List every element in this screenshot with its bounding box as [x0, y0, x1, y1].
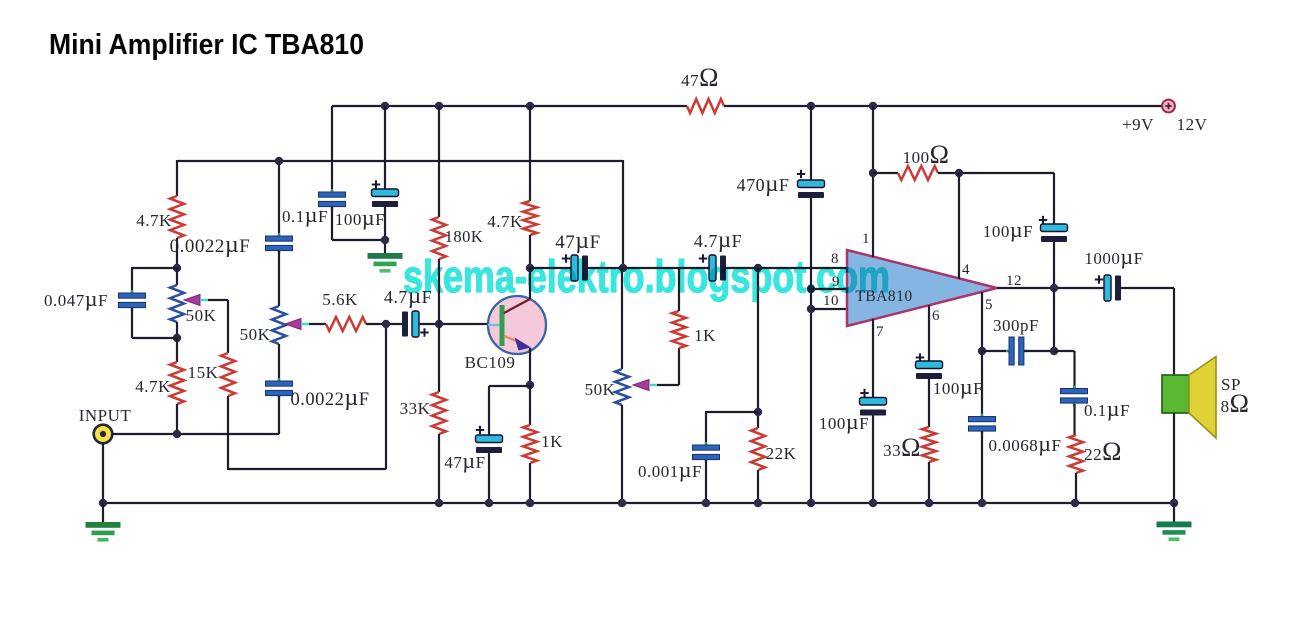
label 0.0068uF [989, 431, 1062, 456]
resistor R 1K emitter [523, 425, 537, 463]
node power rail / 4.7K collector [526, 102, 534, 110]
wire feedback horizontal y161 [177, 160, 623, 162]
plus 4.7uF coupling [420, 328, 428, 336]
wire 300pF left stub [982, 350, 1009, 352]
wire 180K bottom lead [438, 259, 440, 324]
node 100R left [869, 169, 877, 177]
plus 47uF feedback [562, 254, 570, 262]
label pin 7 [876, 324, 884, 340]
wire 0.1uF bottom to ground link [332, 206, 385, 240]
capacitor 47uF feedback [571, 255, 588, 281]
node gnd 0.0068uF [978, 499, 986, 507]
capacitor 100uF pin7 [860, 398, 887, 416]
label 1K-2 [694, 326, 716, 345]
label pin 8 [831, 251, 839, 267]
label 1K emitter [541, 432, 563, 451]
resistor R 33R [922, 427, 936, 462]
label 22R [1084, 437, 1122, 466]
plus 100uF decoupling [372, 180, 380, 188]
wire 4.7K-2 top lead [529, 106, 531, 201]
node base / 180K-33K divider [435, 320, 443, 328]
input jack connector [94, 425, 113, 444]
capacitor 470uF [798, 180, 825, 198]
wire speaker to ground rail [1173, 413, 1175, 503]
svg-text:+9V: +9V [1122, 115, 1154, 134]
label 22K [766, 444, 797, 463]
wire 0.001uF bottom lead [705, 460, 707, 503]
svg-text:4.7K: 4.7K [487, 212, 523, 231]
wire 4.7K-2 bottom lead [529, 235, 531, 268]
label 47uF feedback [555, 228, 600, 254]
wire pin 6 lead [928, 305, 930, 361]
svg-text:4: 4 [962, 262, 970, 278]
label 33K [400, 399, 431, 418]
label 0.0022uF lower [291, 385, 370, 411]
wire 5.6K to node [366, 323, 402, 325]
wire pin 9 [811, 288, 847, 290]
capacitor 0.1uF decoupling [319, 189, 346, 210]
label 12V [1177, 115, 1208, 134]
watermark [403, 251, 890, 302]
wire 100R left stub [873, 172, 898, 174]
label 50K-1 [186, 306, 217, 325]
node power rail / 180K [435, 102, 443, 110]
svg-text:4.7K: 4.7K [135, 377, 171, 396]
ground input [86, 503, 121, 542]
wire feedback vertical drop x623 [622, 160, 624, 268]
node power rail / 100R [869, 102, 877, 110]
wire input to x279 [112, 433, 279, 435]
node feedback drop [619, 264, 627, 272]
label 8R [1221, 389, 1250, 418]
+9V supply terminal [1162, 100, 1175, 113]
wire 47uF to x623 node [588, 267, 623, 269]
potentiometer 50K-3 body [615, 369, 629, 405]
wire 4.7uF-2 to op-amp pin 8 [726, 267, 847, 269]
wire pin 10 [811, 308, 847, 310]
wire pin 1 [872, 173, 874, 257]
wire collector up [529, 268, 531, 299]
label 50K-2 [240, 325, 271, 344]
label pin 12 [1006, 273, 1022, 289]
capacitor 0.0022uF upper [266, 233, 293, 254]
wire emitter to bypass cap [489, 386, 530, 435]
BC109 base bar [500, 305, 505, 346]
node gnd speaker [1170, 499, 1178, 507]
wire 300pF right to output drop [1024, 288, 1054, 351]
wire 22R bottom lead [1075, 473, 1077, 503]
wire 4.7K R1 top lead [176, 160, 178, 196]
node feedback / 0.0022uF [275, 157, 283, 165]
title [49, 29, 364, 61]
BC109 collector stroke [504, 299, 530, 313]
transistor Q1 BC109 body [488, 296, 546, 354]
potentiometer 50K-2 body [272, 306, 286, 344]
capacitor 0.001uF [693, 442, 720, 463]
resistor R 33K [432, 392, 446, 434]
label 100R [903, 140, 950, 169]
svg-text:50K: 50K [585, 380, 616, 399]
resistor R 5.6K [326, 317, 366, 331]
label 47R [681, 63, 719, 92]
wire 100uF pin7 bottom [872, 416, 874, 504]
plus 47uF bypass [476, 426, 484, 434]
wire rail start drop to 0.1uF [331, 106, 333, 192]
label 47uF bypass [444, 448, 485, 473]
wire between pot2 and cap2 [278, 344, 280, 381]
svg-text:1K: 1K [541, 432, 563, 451]
svg-text:1K: 1K [694, 326, 716, 345]
svg-text:300pF: 300pF [993, 316, 1039, 335]
svg-text:12: 12 [1006, 273, 1022, 289]
plus 4.7uF pin8 [699, 254, 707, 262]
wire cap to transistor base [419, 323, 488, 325]
potentiometer 50K-1 body [170, 285, 184, 322]
wire cap2 bottom lead [278, 396, 280, 434]
resistor R 15K [221, 353, 235, 396]
svg-text:33K: 33K [400, 399, 431, 418]
label 300pF [993, 316, 1039, 335]
plus 100uF pin6 [916, 353, 924, 361]
label 15K [188, 363, 219, 382]
label 100uF pin7 [819, 409, 869, 434]
node gnd 1K emitter [526, 499, 534, 507]
wire input jack to ground rail [102, 443, 104, 503]
label pin 1 [862, 231, 870, 247]
node pin5 / 300pF [978, 347, 986, 355]
svg-text:6: 6 [932, 308, 940, 324]
wire 100R right to 100uF [938, 173, 1054, 224]
wire bottom ground rail [103, 502, 1174, 504]
label 0.047uF [44, 286, 108, 311]
wire top power rail left of 47R [332, 105, 687, 107]
wire 22K bottom lead [757, 470, 759, 503]
capacitor 4.7uF coupling (dark left, cyan right) [402, 311, 419, 337]
svg-text:12V: 12V [1177, 115, 1208, 134]
wire to 0.1uF branch [1054, 351, 1075, 388]
wire pot3 bottom lead [621, 405, 623, 503]
label pin 4 [962, 262, 970, 278]
resistor R 100R [898, 166, 938, 180]
pot 50K-1 wiper arrow [184, 295, 208, 306]
wire pin 7 lead [872, 319, 874, 397]
node gnd input [99, 499, 107, 507]
wire wiper1 to 15K [208, 300, 228, 353]
node gnd 22R [1071, 499, 1079, 507]
ground decoupling [368, 253, 403, 273]
node gnd 33K [435, 499, 443, 507]
node x177 y338 [173, 334, 181, 342]
label 4.7K collector [487, 212, 523, 231]
capacitor 4.7uF to pin8 [709, 255, 726, 281]
label pin 5 [985, 297, 993, 313]
svg-text:470µF: 470µF [737, 171, 790, 196]
node pin 4 top [955, 169, 963, 177]
wire pin 5 lead [981, 292, 983, 351]
op-amp U1 TBA810 [847, 250, 997, 326]
node gnd 22K [754, 499, 762, 507]
resistor R 180K [432, 217, 446, 259]
wire wiper2 stub [309, 323, 326, 325]
wire emitter down [529, 348, 531, 385]
capacitor 47uF emitter bypass [476, 435, 503, 453]
node collector feedback [526, 264, 534, 272]
label 4.7uF coupling [384, 283, 432, 308]
wire 0.047uF top [132, 267, 177, 293]
wire 33K top lead [438, 324, 440, 392]
svg-text:50K: 50K [186, 306, 217, 325]
BC109 emitter arrow [515, 338, 532, 351]
capacitor 300pF [1006, 337, 1027, 365]
wire 33R bottom lead [928, 462, 930, 503]
label BC109 [465, 353, 516, 372]
node input / 4.7K [173, 430, 181, 438]
capacitor 100uF boost [1041, 224, 1068, 242]
label +9V [1122, 115, 1154, 134]
label 100uF boost [983, 217, 1033, 242]
svg-text:4.7K: 4.7K [136, 211, 172, 230]
svg-text:7: 7 [876, 324, 884, 340]
wire 100uF bottom stub [384, 207, 386, 253]
wire 33K bottom lead [438, 434, 440, 503]
capacitor 0.047uF [119, 290, 146, 311]
wire 1K-1 top lead [529, 385, 531, 425]
wire bypass cap to ground rail [488, 453, 490, 503]
node gnd pin7 [869, 499, 877, 507]
node gnd 0.001uF [702, 499, 710, 507]
resistor R 4.7K lower-left [170, 362, 184, 404]
label 470uF [737, 171, 790, 196]
wire x623 node to 4.7uF-2 [623, 267, 710, 269]
resistor R 22K [751, 428, 765, 470]
node 22K / 0.001uF [754, 408, 762, 416]
label 100uF decoupling [335, 205, 385, 230]
wire collector node to 47uF [530, 267, 572, 269]
svg-text:50K: 50K [240, 325, 271, 344]
wire 22K column upper [757, 268, 759, 428]
wire 0.0068uF bottom lead [981, 431, 983, 503]
label 4.7K lower-left [135, 377, 171, 396]
wire 0.1uF to 22R [1073, 404, 1075, 435]
svg-text:180K: 180K [445, 227, 484, 246]
node decoupling ground [381, 236, 389, 244]
wire 100uF boost bottom [1053, 242, 1055, 288]
label 4.7K upper-left [136, 211, 172, 230]
node gnd 33R [925, 499, 933, 507]
svg-text:0.0022µF: 0.0022µF [170, 232, 251, 258]
speaker SP horn [1189, 357, 1216, 439]
speaker SP magnet [1162, 375, 1189, 413]
capacitor 100uF pin6 [916, 361, 943, 379]
node output / boost [1050, 284, 1058, 292]
resistor R 22R [1069, 435, 1083, 473]
svg-text:Mini Amplifier IC TBA810: Mini Amplifier IC TBA810 [49, 29, 364, 61]
label 180K [445, 227, 484, 246]
resistor R 4.7K upper-left [170, 196, 184, 238]
wire 0.047uF bottom [132, 308, 177, 338]
svg-text:5.6K: 5.6K [322, 290, 358, 309]
label INPUT [79, 406, 132, 425]
BC109 emitter stroke [504, 336, 522, 343]
wire top power rail right of 47R [724, 105, 1162, 107]
capacitor 0.0068uF [969, 414, 996, 435]
node power rail / 470uF [807, 102, 815, 110]
label 4.7uF pin8 [694, 227, 742, 252]
capacitor 100uF decoupling [372, 189, 399, 207]
label 33R [883, 433, 921, 462]
wire pin5 node to 0.0068uF [981, 351, 983, 417]
label 0.0022uF upper [170, 232, 251, 258]
wire R1 bottom lead [176, 238, 178, 268]
label 1000uF [1084, 244, 1143, 269]
node x177 y268 [173, 264, 181, 272]
pot 50K-3 wiper arrow [633, 380, 657, 391]
wire pin 4 [958, 173, 960, 279]
plus 470uF [797, 170, 805, 178]
node gnd pin10 line [807, 499, 815, 507]
svg-text:skema-elektro.blogspot.com: skema-elektro.blogspot.com [403, 251, 890, 302]
label SP [1221, 375, 1241, 394]
capacitor 0.0022uF lower [266, 378, 293, 399]
capacitor 1000uF output [1104, 275, 1121, 301]
label pin 9 [832, 274, 840, 290]
wire 1000uF to speaker [1121, 288, 1174, 375]
label 5.6K [322, 290, 358, 309]
svg-text:15K: 15K [188, 363, 219, 382]
svg-text:4.7µF: 4.7µF [694, 227, 742, 252]
node pin10 [807, 305, 815, 313]
wire output pin12 [997, 287, 1105, 289]
resistor R 4.7K collector [523, 201, 537, 235]
wire pot 50K-1 bottom lead [176, 322, 178, 338]
node emitter [526, 381, 534, 389]
label 50K-3 [585, 380, 616, 399]
wire 15K bottom to riser [227, 324, 386, 469]
svg-text:INPUT: INPUT [79, 406, 132, 425]
wire 0.0022uF-1 top lead [278, 161, 280, 236]
wire 1K-1 bottom lead [529, 463, 531, 503]
plus 100uF boost [1039, 216, 1047, 224]
label 0.001uF [638, 457, 702, 482]
BC109 base lead cyan [488, 324, 500, 326]
wire wiper3 to 1K-2 [657, 348, 679, 385]
wire between cap1 and pot2 [278, 251, 280, 306]
ground speaker [1157, 503, 1192, 541]
wire 100uF decoupling top lead [384, 106, 386, 189]
wire R3 bottom lead [176, 404, 178, 434]
label 100uF pin6 [933, 374, 983, 399]
label TBA810 [855, 288, 912, 305]
resistor R 1K-2 [672, 311, 686, 348]
wire 0.001uF link [706, 411, 758, 445]
wire 470uF top lead [810, 106, 812, 180]
node pin8 / 22K [754, 264, 762, 272]
node power rail / 100uF bypass [381, 102, 389, 110]
svg-text:22K: 22K [766, 444, 797, 463]
wire 180K top lead [438, 106, 440, 217]
svg-text:5: 5 [985, 297, 993, 313]
capacitor 0.1uF zobel [1061, 386, 1088, 407]
node pin9 [807, 285, 815, 293]
plus 1000uF [1095, 275, 1103, 283]
svg-text:BC109: BC109 [465, 353, 516, 372]
wire pot 50K-1 top lead [176, 268, 178, 285]
wire 100R rail drop [872, 106, 874, 173]
node gnd pot3 [618, 499, 626, 507]
wire 4.7K R3 top lead [176, 338, 178, 362]
plus 100uF pin7 [860, 389, 868, 397]
label pin 10 [823, 293, 839, 309]
label 0.1uF decoupling [282, 202, 328, 227]
node gnd 47uF bypass [485, 499, 493, 507]
wire pin6 cap to 33R [928, 379, 930, 427]
wire 470uF bottom to pin10 and ground [810, 198, 812, 503]
pot 50K-2 wiper arrow [285, 319, 309, 330]
svg-text:1: 1 [862, 231, 870, 247]
wire pot3 top lead [621, 268, 623, 369]
node base coupling [382, 320, 390, 328]
node 300pF / output drop [1050, 347, 1058, 355]
resistor 47R on power rail [687, 99, 724, 113]
wire 1K-2 top lead [678, 268, 680, 311]
label pin 6 [932, 308, 940, 324]
label 0.1uF zobel [1084, 396, 1130, 421]
